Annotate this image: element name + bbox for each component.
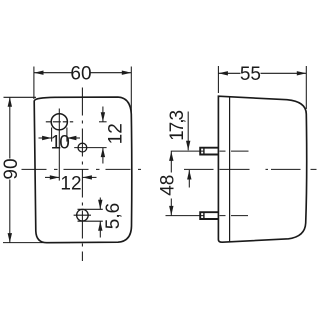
svg-text:12: 12 bbox=[60, 173, 81, 194]
svg-text:5,6: 5,6 bbox=[103, 203, 124, 229]
svg-text:48: 48 bbox=[158, 175, 179, 196]
svg-text:90: 90 bbox=[1, 158, 22, 179]
svg-text:55: 55 bbox=[240, 64, 261, 85]
svg-text:60: 60 bbox=[70, 64, 91, 85]
svg-text:10: 10 bbox=[51, 133, 70, 154]
svg-text:17,3: 17,3 bbox=[167, 110, 188, 140]
svg-text:12: 12 bbox=[105, 123, 126, 144]
